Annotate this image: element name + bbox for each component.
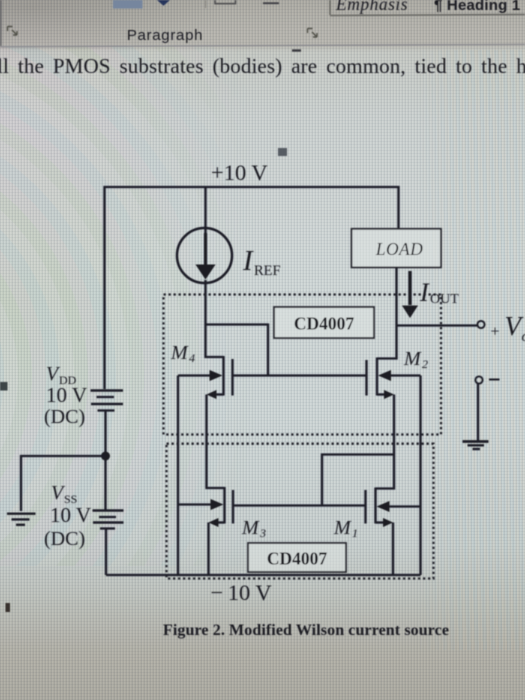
lower dotted box — [167, 444, 434, 579]
CD4007 lower box — [248, 543, 346, 572]
dialog launcher left — [8, 27, 18, 36]
wire minus terminal to ground — [477, 384, 479, 442]
svg-text:(DC): (DC) — [44, 406, 85, 428]
svg-text:ll the PMOS substrates (bodies: ll the PMOS substrates (bodies) are comm… — [0, 54, 525, 78]
svg-text:1: 1 — [352, 526, 358, 540]
svg-text:CD4007: CD4007 — [267, 549, 328, 569]
wire LOAD down to M2 drain — [377, 267, 397, 359]
label minus — [489, 379, 500, 381]
toolbar border button — [215, 0, 236, 4]
minus terminal circle — [475, 376, 482, 383]
battery VDD — [91, 391, 124, 411]
svg-text:M: M — [170, 342, 189, 364]
ground right — [463, 442, 489, 450]
svg-text:+10 V: +10 V — [211, 160, 268, 185]
wire IREF drop from rail — [204, 187, 206, 233]
M3 bulk arrow — [178, 503, 215, 505]
transistor M2 gate bar — [365, 360, 367, 396]
svg-text:LOAD: LOAD — [375, 239, 423, 259]
+Vo terminal circle — [477, 321, 484, 328]
transistor M3 channel bar — [223, 487, 225, 524]
svg-text:4: 4 — [189, 351, 195, 365]
svg-text:CD4007: CD4007 — [294, 314, 355, 334]
M2 bulk arrow — [387, 374, 421, 376]
M1 source lead arrow — [376, 521, 385, 523]
M3 source lead arrow — [217, 521, 225, 523]
wire M4 source down to M3 drain — [207, 395, 225, 489]
wire gate rail upper — [233, 374, 367, 376]
svg-text:o: o — [522, 329, 525, 345]
wire gate rail lower — [233, 504, 366, 506]
left edge gray square — [0, 382, 8, 391]
M2 source lead arrow — [377, 393, 385, 395]
svg-text:I: I — [419, 278, 430, 307]
svg-text:3: 3 — [259, 526, 266, 540]
CD4007 upper box — [274, 307, 374, 338]
photo left dark edge — [0, 0, 2, 46]
wire IREF to M4 drain — [206, 280, 224, 357]
wire M3 source to bottom rail — [207, 523, 209, 576]
svg-text:¶ Heading 1: ¶ Heading 1 — [434, 0, 520, 14]
IOUT arrow — [408, 271, 411, 305]
svg-text:M: M — [241, 517, 260, 539]
wire output node to +Vo terminal — [397, 324, 478, 326]
svg-text:Paragraph: Paragraph — [127, 27, 203, 44]
svg-text:M: M — [333, 517, 352, 539]
transistor M3 gate bar — [232, 490, 234, 524]
wire VSS to bottom rail — [105, 529, 107, 575]
wire M2 source down to M1 drain — [376, 395, 395, 489]
svg-text:+: + — [491, 324, 500, 341]
svg-text:10 V: 10 V — [46, 383, 87, 407]
M4 source lead arrow — [215, 393, 224, 395]
svg-text:10 V: 10 V — [50, 503, 91, 527]
battery VSS — [93, 511, 124, 529]
M4 bulk arrow — [178, 374, 214, 376]
wire feedback branch to lower gate rail — [322, 455, 394, 506]
transistor M1 channel bar — [374, 488, 376, 524]
wire M4/M3 bulk rail (left) — [177, 376, 179, 576]
wire VDD to node — [104, 412, 106, 511]
dialog launcher right — [308, 29, 318, 38]
svg-text:Figure 2. Modified Wilson cur: Figure 2. Modified Wilson current source — [163, 622, 449, 639]
transistor M4 gate bar — [231, 359, 233, 396]
node junction dot — [101, 452, 110, 461]
svg-text:OUT: OUT — [430, 292, 459, 307]
wire node to left ground — [21, 456, 106, 511]
current source arrow — [204, 233, 207, 266]
svg-text:REF: REF — [254, 263, 281, 279]
ground left — [7, 514, 36, 525]
LOAD box — [352, 229, 442, 268]
wire bottom rail — [106, 574, 421, 576]
ribbon bottom border — [0, 44, 525, 46]
toolbar blue fill-color button — [113, 0, 143, 9]
toolbar separator line — [205, 0, 207, 8]
svg-text:− 10 V: − 10 V — [211, 580, 272, 605]
toolbar underline dash — [263, 2, 279, 4]
svg-text:(DC): (DC) — [44, 528, 85, 550]
toolbar dropdown triangle — [157, 0, 170, 6]
svg-text:Emphasis: Emphasis — [335, 0, 408, 14]
wire gate jog (drain to gate rail) — [206, 325, 269, 376]
ribbon small tick — [292, 49, 301, 51]
left edge dark blob — [6, 603, 11, 612]
wire M1 source to bottom rail — [392, 523, 394, 576]
gray square above +10V — [278, 148, 287, 156]
upper dotted box — [164, 295, 442, 435]
M1 bulk arrow — [385, 505, 421, 507]
svg-text:M: M — [403, 348, 422, 370]
wire top rail — [105, 187, 399, 389]
svg-text:I: I — [242, 245, 254, 277]
transistor M1 gate bar — [364, 490, 366, 524]
transistor M2 channel bar — [376, 358, 378, 396]
current source IREF circle — [177, 228, 232, 283]
wire M2/M1 bulk rail (right) — [419, 376, 421, 576]
svg-text:2: 2 — [422, 357, 428, 371]
styles gallery box edge — [330, 0, 525, 16]
transistor M4 channel bar — [222, 356, 224, 396]
